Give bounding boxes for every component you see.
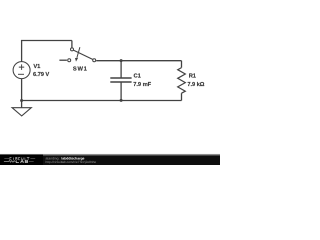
svg-text:SW1: SW1	[73, 67, 88, 73]
wire: V1 top lead up to top rail	[21, 41, 23, 62]
svg-text:7.9 kΩ: 7.9 kΩ	[187, 82, 204, 88]
node: ground junction	[20, 99, 23, 102]
node: C1 top junction	[120, 59, 123, 62]
capacitor C1	[120, 61, 122, 78]
svg-text:V1: V1	[33, 64, 41, 70]
switch SW1	[71, 48, 74, 51]
wire: top rail to switch	[21, 40, 72, 42]
svg-text:7.9 mF: 7.9 mF	[133, 82, 151, 88]
wire: bottom rail	[22, 100, 182, 102]
ground	[21, 101, 23, 108]
wire: V1 bottom lead down to bottom rail	[21, 79, 23, 101]
watermark logo CIRCUITLAB	[4, 157, 35, 162]
resistor R1	[181, 61, 183, 68]
wire: drop from top rail to switch throw 1	[71, 41, 73, 48]
svg-text:6.79 V: 6.79 V	[33, 72, 49, 78]
svg-text:C1: C1	[134, 74, 142, 80]
node: C1 bottom junction	[120, 99, 123, 102]
svg-text:http://circuitlab.com/c/e7TeVj: http://circuitlab.com/c/e7TeVj2e8nhe	[46, 161, 97, 164]
svg-text:R1: R1	[189, 74, 197, 80]
watermark text	[46, 157, 97, 164]
voltage source V1	[13, 62, 30, 79]
wire: switch common to right rail	[96, 60, 181, 62]
svg-text:atanding : labddischarge: atanding : labddischarge	[46, 157, 85, 161]
